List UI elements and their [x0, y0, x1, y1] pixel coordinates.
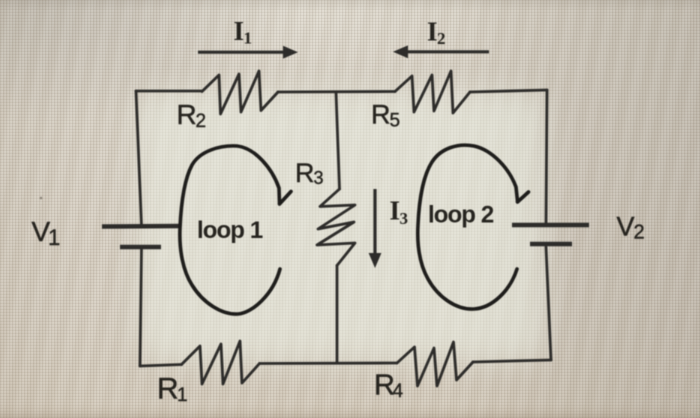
wire top-right: [470, 90, 547, 92]
label R2: [177, 99, 207, 132]
svg-text:5: 5: [390, 111, 401, 132]
wire left-upper: [136, 91, 142, 226]
svg-text:R: R: [177, 99, 197, 130]
wire bottom-right: [473, 360, 551, 362]
wire top-middle: [278, 90, 395, 93]
svg-text:loop 1: loop 1: [197, 217, 263, 244]
svg-text:2: 2: [196, 111, 207, 132]
label V2: [617, 212, 645, 244]
svg-text:I: I: [427, 17, 438, 47]
label V1: [32, 216, 61, 250]
svg-text:1: 1: [177, 385, 188, 406]
resistor R5: [395, 71, 470, 113]
svg-text:3: 3: [400, 209, 409, 228]
wire left-lower: [140, 248, 142, 367]
loop 2 arrow: [418, 145, 529, 309]
wire top-left: [136, 90, 202, 93]
current arrow I2: [393, 45, 489, 58]
wire bottom-left: [140, 365, 182, 367]
svg-text:3: 3: [314, 168, 324, 188]
battery V2: [512, 225, 589, 244]
resistor R2: [202, 71, 278, 114]
wire bottom-middle: [260, 362, 398, 365]
label R1: [157, 373, 188, 407]
label I2: [427, 17, 446, 48]
label R3: [295, 158, 324, 188]
loop 1 arrow: [180, 146, 291, 314]
svg-text:loop 2: loop 2: [428, 202, 494, 229]
svg-text:4: 4: [393, 381, 404, 402]
wire middle-upper (from top junction node): [336, 92, 340, 189]
label R4: [374, 370, 404, 403]
svg-text:R: R: [295, 158, 315, 188]
wire right-upper: [546, 90, 547, 225]
svg-text:1: 1: [244, 29, 253, 48]
svg-text:V: V: [617, 212, 635, 242]
label I1: [234, 16, 253, 48]
svg-text:2: 2: [437, 29, 446, 48]
lighter inner circuit area: [138, 92, 546, 362]
resistor R4: [397, 342, 473, 386]
svg-text:R: R: [371, 100, 391, 130]
wire middle-lower (to bottom junction node): [336, 266, 339, 364]
speck artifact: [40, 197, 43, 200]
svg-text:2: 2: [634, 222, 645, 244]
label I3: [390, 196, 409, 229]
wire right-lower: [546, 247, 551, 360]
svg-text:I: I: [234, 16, 245, 46]
resistor R1: [182, 341, 260, 384]
resistor R3: [317, 189, 355, 266]
current arrow I1: [198, 46, 298, 59]
svg-text:I: I: [390, 196, 401, 226]
svg-text:R: R: [157, 373, 179, 406]
battery V1: [102, 226, 181, 247]
current arrow I3: [369, 189, 382, 268]
label R5: [371, 100, 400, 132]
svg-text:1: 1: [48, 225, 60, 250]
